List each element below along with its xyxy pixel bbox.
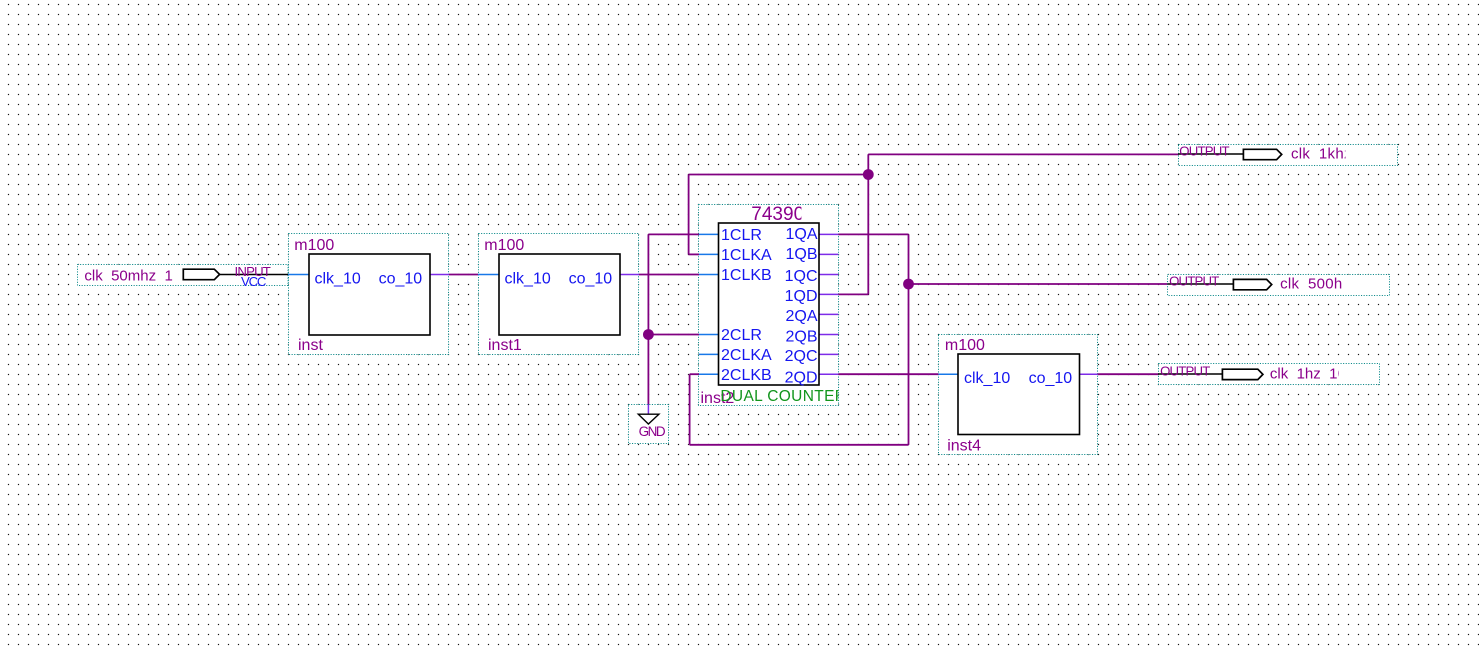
svg-text:VCC: VCC [241,274,267,289]
svg-text:OUTPUT: OUTPUT [1160,364,1210,379]
svg-text:1QC: 1QC [785,268,818,285]
svg-text:inst1: inst1 [488,337,522,354]
svg-text:2CLKB: 2CLKB [721,367,772,384]
svg-text:clk_1khz: clk_1khz [1291,146,1352,163]
pin stub 1QA [819,233,838,235]
net clk_1khz: 1QD output wire [838,293,868,295]
pin stub 2QA [819,313,838,315]
svg-text:m100: m100 [484,237,524,254]
net clk_1khz: vertical riser [867,154,869,294]
pin stub 2QC [819,353,838,355]
svg-text:2CLR: 2CLR [721,327,762,344]
pin stub clk_10 (input) [938,373,958,375]
svg-text:m100: m100 [945,337,985,354]
svg-text:DUAL COUNTER: DUAL COUNTER [720,388,846,405]
wire inst.co_10 to inst1.clk_10 [449,274,478,276]
svg-text:inst: inst [298,337,323,354]
output pin clk_500hz [1167,274,1389,296]
net clk_500hz: 1QA output wire [838,233,908,235]
net GND: wire to 1CLR [648,233,699,235]
svg-text:1CLR: 1CLR [721,227,762,244]
svg-text:inst4: inst4 [947,438,981,455]
junction clk_1khz feedback [863,169,874,180]
pin stub 1QC [819,274,838,276]
svg-text:clk_50mhz_1: clk_50mhz_1 [84,267,172,284]
pin stub 1CLKA [699,253,719,255]
pin stub 2CLKB [699,373,719,375]
wire 2QD to inst4.clk_10 [838,373,938,375]
net clk_1khz: into 1CLKA [689,253,699,255]
pin stub clk_10 (input) [288,274,309,276]
block 74390 inst2 [699,204,847,407]
svg-text:2CLKA: 2CLKA [721,347,772,364]
net clk_1khz: feedback drop [688,175,690,255]
pin stub co_10 (output) [430,274,449,276]
net clk_500hz: run to output [909,283,1168,285]
net clk_500hz: bottom run [690,444,909,446]
input pin clk_50mhz_1 [78,264,289,289]
svg-text:GND: GND [639,424,666,439]
svg-text:OUTPUT: OUTPUT [1169,274,1219,289]
svg-text:1CLKA: 1CLKA [721,247,772,264]
net clk_500hz: into 2CLKB [690,373,699,375]
pin stub 1CLKB [699,274,719,276]
junction GND/2CLR [643,329,654,340]
pin stub co_10 (output) [1080,373,1098,375]
block m100 inst1 [478,234,639,355]
pin stub 1QD [819,293,838,295]
net GND: wire to 2CLR [648,334,699,336]
pin stub 2QD [819,373,838,375]
svg-text:clk_1hz_10: clk_1hz_10 [1270,366,1346,383]
pin stub 2QB [819,334,838,336]
junction clk_500hz [903,279,914,290]
pin stub co_10 (output) [620,274,639,276]
svg-text:clk_500hz: clk_500hz [1280,275,1350,292]
net clk_500hz: vertical drop [908,234,910,444]
svg-text:2QD: 2QD [785,370,818,387]
svg-text:1QA: 1QA [785,226,817,243]
svg-text:74390: 74390 [751,204,804,225]
svg-text:clk_10: clk_10 [964,370,1010,387]
svg-text:co_10: co_10 [569,270,613,287]
svg-text:2QB: 2QB [785,328,817,345]
svg-text:1QD: 1QD [785,288,818,305]
pin stub 1QB [819,253,838,255]
pin stub 2CLR [699,334,719,336]
net GND: vertical wire [647,234,649,404]
output pin clk_1hz_10 [1158,364,1380,385]
svg-text:1QB: 1QB [785,246,817,263]
svg-text:clk_10: clk_10 [315,270,361,287]
svg-text:1CLKB: 1CLKB [721,267,772,284]
block m100 inst4 [938,335,1097,455]
svg-text:m100: m100 [294,237,334,254]
svg-text:2QA: 2QA [785,308,817,325]
svg-text:2QC: 2QC [785,348,818,365]
net clk_500hz: feedback rise [689,374,691,445]
pin stub 1CLR [699,233,719,235]
output pin clk_1khz [1178,144,1397,166]
pin stub 2CLKA [699,353,719,355]
pin stub clk_10 (input) [478,274,499,276]
svg-text:clk_10: clk_10 [505,270,551,287]
net clk_1khz: feedback run [689,174,869,176]
svg-text:co_10: co_10 [1029,370,1073,387]
block m100 inst [288,234,449,355]
gnd symbol [629,404,669,443]
svg-text:OUTPUT: OUTPUT [1179,144,1229,159]
wire inst4.co_10 to output clk_1hz [1098,373,1158,375]
svg-text:co_10: co_10 [379,270,423,287]
net clk_1khz: top run to output [868,153,1178,155]
wire inst1.co_10 to 74390 1CLKB [639,274,699,276]
